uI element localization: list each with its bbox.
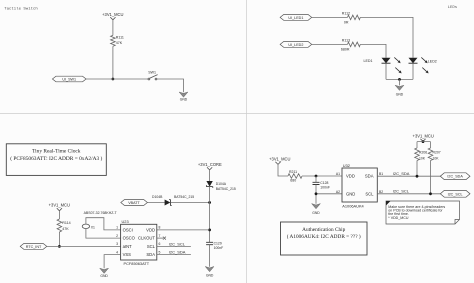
svg-text:680R: 680R bbox=[341, 48, 350, 52]
net flag UI_LED1 bbox=[280, 15, 312, 21]
capacitor C129 100nF bbox=[206, 241, 223, 249]
svg-text:47K: 47K bbox=[62, 227, 69, 231]
net flag I2C_SCL bbox=[440, 190, 470, 197]
wire VDD bbox=[157, 229, 210, 231]
wire SDA bbox=[377, 175, 440, 177]
svg-text:6: 6 bbox=[159, 242, 161, 246]
ground bbox=[205, 267, 214, 272]
svg-text:I2C_SDA: I2C_SDA bbox=[393, 171, 410, 176]
svg-text:100nF: 100nF bbox=[214, 246, 224, 250]
svg-text:GND: GND bbox=[206, 274, 214, 278]
diode D104B BAT54C_215 bbox=[152, 195, 194, 206]
svg-text:R211: R211 bbox=[289, 170, 297, 174]
svg-text:LEDs: LEDs bbox=[448, 6, 458, 10]
net flag VBATT bbox=[121, 200, 148, 206]
svg-text:LED1: LED1 bbox=[364, 59, 373, 63]
capacitor C128 100nF bbox=[313, 176, 330, 190]
IC U32 A1006AUK4 bbox=[336, 163, 383, 209]
svg-text:GND: GND bbox=[396, 92, 404, 96]
svg-text:47K: 47K bbox=[116, 41, 123, 45]
resistor R206 10K bbox=[415, 148, 420, 160]
wire bbox=[147, 202, 164, 204]
svg-text:5: 5 bbox=[159, 250, 161, 254]
svg-text:10K: 10K bbox=[419, 156, 426, 160]
svg-text:R113: R113 bbox=[342, 39, 350, 43]
power +3V1_CORE bbox=[207, 167, 212, 170]
wire bbox=[86, 78, 148, 80]
svg-text:R207: R207 bbox=[433, 150, 441, 154]
svg-text:VBATT: VBATT bbox=[128, 201, 140, 205]
svg-text:7: 7 bbox=[159, 234, 161, 238]
svg-text:1: 1 bbox=[116, 226, 118, 230]
svg-text:UI_LED1: UI_LED1 bbox=[288, 16, 303, 20]
svg-text:I2C_SCL: I2C_SCL bbox=[393, 189, 410, 194]
svg-text:3: 3 bbox=[116, 242, 118, 246]
svg-text:0R: 0R bbox=[344, 21, 349, 25]
svg-text:BAT54C_215: BAT54C_215 bbox=[216, 187, 236, 191]
ground bbox=[312, 204, 321, 209]
wire bbox=[312, 43, 348, 45]
wire bbox=[412, 63, 414, 79]
node junction LED cathodes bbox=[398, 78, 401, 81]
wire bbox=[360, 44, 386, 57]
node junction VBATT/CORE bbox=[208, 201, 211, 204]
wire bbox=[385, 63, 387, 79]
wire SCL bbox=[377, 193, 440, 195]
title box: Authentication Chip bbox=[281, 222, 368, 255]
svg-text:GND: GND bbox=[100, 274, 108, 278]
LED LED1 bbox=[364, 57, 402, 73]
power +3V1_MCU (switch pull-up) bbox=[110, 17, 115, 20]
svg-text:OSCO: OSCO bbox=[123, 236, 136, 241]
svg-text:R111: R111 bbox=[116, 35, 124, 39]
net flag UI_SW1 bbox=[52, 76, 86, 82]
svg-text:680: 680 bbox=[290, 179, 296, 183]
wire bbox=[386, 78, 413, 80]
power +3V1_MCU (RTC pull-up) bbox=[57, 208, 62, 211]
svg-text:I2C_SDA: I2C_SDA bbox=[169, 250, 186, 255]
svg-text:PCF85063ATT: PCF85063ATT bbox=[124, 261, 150, 266]
svg-text:Tiny Real-Time Clock: Tiny Real-Time Clock bbox=[32, 149, 81, 155]
svg-text:R206: R206 bbox=[419, 150, 427, 154]
switch SW1 bbox=[148, 75, 158, 80]
wire bbox=[112, 20, 114, 36]
svg-text:C129: C129 bbox=[214, 241, 222, 245]
svg-text:D104B: D104B bbox=[152, 195, 163, 199]
svg-text:VDD: VDD bbox=[346, 174, 355, 179]
resistor R210 680 bbox=[288, 174, 302, 179]
ground bbox=[100, 268, 109, 273]
IC U23 PCF85063ATT bbox=[116, 219, 160, 266]
svg-text:CLKOUT: CLKOUT bbox=[138, 236, 155, 241]
svg-text:100nF: 100nF bbox=[320, 186, 330, 190]
wire bbox=[312, 16, 348, 18]
node junction RTC_INT bbox=[58, 245, 61, 248]
svg-text:C128: C128 bbox=[320, 181, 328, 185]
resistor R111 47K bbox=[111, 35, 116, 46]
note box bbox=[386, 201, 460, 224]
svg-text:UI_LED2: UI_LED2 bbox=[288, 43, 303, 47]
svg-text:( A1006AUK4: I2C ADDR = ??? ): ( A1006AUK4: I2C ADDR = ??? ) bbox=[287, 233, 361, 240]
svg-text:( PCF85063ATT: I2C ADDR = 0xA2: ( PCF85063ATT: I2C ADDR = 0xA2/A3 ) bbox=[10, 155, 102, 162]
wire bbox=[360, 17, 413, 57]
svg-text:+3V1_MCU: +3V1_MCU bbox=[269, 157, 290, 162]
svg-text:8: 8 bbox=[159, 226, 161, 230]
svg-text:GND: GND bbox=[180, 97, 188, 101]
svg-text:A2: A2 bbox=[336, 190, 340, 194]
svg-text:I2C_SCL: I2C_SCL bbox=[169, 241, 186, 246]
resistor R114 47K bbox=[57, 219, 62, 232]
svg-text:10K: 10K bbox=[433, 156, 440, 160]
wire bbox=[399, 79, 401, 85]
svg-text:ABS07-32.768KHZ-T: ABS07-32.768KHZ-T bbox=[84, 211, 118, 215]
net label I2C_SDA wire bbox=[157, 254, 191, 256]
svg-text:B2: B2 bbox=[379, 190, 383, 194]
wire bbox=[58, 232, 60, 246]
wire bbox=[209, 170, 211, 181]
wire bbox=[58, 211, 60, 219]
title box: Tiny Real-Time Clock bbox=[6, 144, 106, 176]
node junction VDD/C128 bbox=[315, 175, 318, 178]
wire CLKOUT stub bbox=[157, 237, 163, 239]
svg-text:4: 4 bbox=[116, 250, 118, 254]
resistor R113 680R bbox=[348, 42, 361, 47]
svg-text:U32: U32 bbox=[343, 163, 350, 168]
node junction at switch bbox=[112, 78, 115, 81]
wire bbox=[416, 161, 418, 177]
svg-text:Authentication Chip: Authentication Chip bbox=[302, 227, 345, 233]
wire bbox=[430, 161, 432, 194]
svg-text:+3V1_MCU: +3V1_MCU bbox=[49, 202, 70, 207]
svg-text:GND: GND bbox=[312, 211, 320, 215]
svg-text:+3V1_CORE: +3V1_CORE bbox=[198, 162, 222, 167]
diode D104A BAT54C_215 bbox=[206, 181, 236, 191]
svg-text:SDA: SDA bbox=[146, 252, 155, 257]
no-connect CLKOUT bbox=[163, 237, 166, 240]
node junction GND/C128 bbox=[315, 192, 318, 195]
resistor R112 0R bbox=[348, 15, 361, 20]
power +3V1_MCU (auth supply) bbox=[275, 162, 280, 165]
wire bbox=[209, 245, 211, 267]
ground bbox=[395, 85, 404, 90]
ground bbox=[179, 92, 188, 97]
wire bbox=[112, 46, 114, 79]
svg-text:* VDD_MCU: * VDD_MCU bbox=[388, 216, 409, 220]
net flag RTC_INT bbox=[20, 244, 47, 250]
svg-text:R112: R112 bbox=[342, 12, 350, 16]
svg-text:SW1: SW1 bbox=[148, 71, 156, 75]
wire bbox=[170, 202, 209, 204]
wire bbox=[316, 185, 342, 204]
svg-text:UI_SW1: UI_SW1 bbox=[62, 78, 76, 82]
svg-text:2: 2 bbox=[116, 234, 118, 238]
wire bbox=[157, 79, 184, 92]
svg-text:SDA: SDA bbox=[365, 174, 374, 179]
svg-text:+3V1_MCU: +3V1_MCU bbox=[413, 134, 434, 139]
svg-text:VSS: VSS bbox=[123, 252, 132, 257]
svg-text:I2C_SCL: I2C_SCL bbox=[448, 192, 463, 196]
wire bbox=[278, 164, 288, 176]
svg-text:BAT54C_215: BAT54C_215 bbox=[174, 195, 194, 199]
svg-text:A1006AUK4: A1006AUK4 bbox=[342, 203, 364, 208]
svg-text:aINT: aINT bbox=[123, 244, 133, 249]
svg-text:SCL: SCL bbox=[147, 244, 156, 249]
svg-text:OSCI: OSCI bbox=[123, 227, 133, 232]
svg-text:I2C_SDA: I2C_SDA bbox=[447, 175, 463, 179]
LED LED2 bbox=[409, 57, 437, 73]
svg-text:X1: X1 bbox=[91, 226, 95, 230]
wire aINT bbox=[47, 245, 121, 247]
crystal X1 ABS07-32.768KHZ-T bbox=[82, 211, 120, 238]
svg-text:A1: A1 bbox=[336, 172, 340, 176]
net label I2C_SCL wire bbox=[157, 245, 191, 247]
power +3V1_MCU (I2C pull-ups) bbox=[420, 139, 425, 142]
node junction pull-up top bbox=[422, 140, 425, 143]
net flag I2C_SDA bbox=[440, 173, 470, 180]
net flag UI_LED2 bbox=[280, 42, 312, 48]
node junction VDD bbox=[208, 229, 211, 232]
svg-text:GND: GND bbox=[346, 192, 355, 197]
svg-text:B1: B1 bbox=[379, 172, 383, 176]
svg-text:RTC_INT: RTC_INT bbox=[26, 245, 42, 249]
svg-text:R114: R114 bbox=[62, 221, 70, 225]
svg-text:+3V1_MCU: +3V1_MCU bbox=[102, 12, 123, 17]
svg-text:LED2: LED2 bbox=[428, 59, 437, 63]
svg-text:Tactile Switch: Tactile Switch bbox=[4, 7, 38, 12]
svg-text:D104A: D104A bbox=[216, 182, 227, 186]
wire bbox=[417, 142, 431, 148]
wire bbox=[302, 175, 342, 177]
node junction R207/SCL bbox=[429, 192, 432, 195]
svg-text:U23: U23 bbox=[122, 219, 129, 224]
wire bbox=[209, 187, 211, 243]
wire VSS bbox=[104, 255, 121, 269]
node junction R206/SDA bbox=[416, 175, 419, 178]
svg-text:SCL: SCL bbox=[365, 192, 374, 197]
resistor R207 10K bbox=[428, 148, 433, 160]
svg-text:VDD: VDD bbox=[146, 227, 155, 232]
